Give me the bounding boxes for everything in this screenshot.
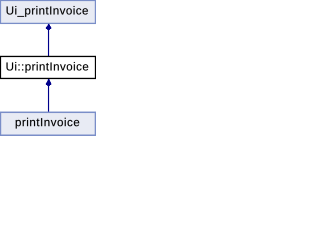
node printInvoice (derived class box): [0, 112, 95, 135]
wire arrow2 shaft (bottom to middle): [48, 86, 49, 112]
label printInvoice: [16, 118, 80, 129]
inheritance diagram: [0, 0, 96, 136]
arrowhead 2: [46, 79, 51, 86]
node Ui_printInvoice (base class box): [0, 0, 95, 23]
node Ui::printInvoice (middle class box): [0, 56, 95, 78]
arrowhead 1: [46, 24, 51, 30]
label Ui_printInvoice: [7, 6, 88, 17]
background: [0, 0, 96, 136]
wire arrow1 shaft (middle to top): [48, 30, 49, 57]
label Ui::printInvoice: [7, 62, 89, 73]
